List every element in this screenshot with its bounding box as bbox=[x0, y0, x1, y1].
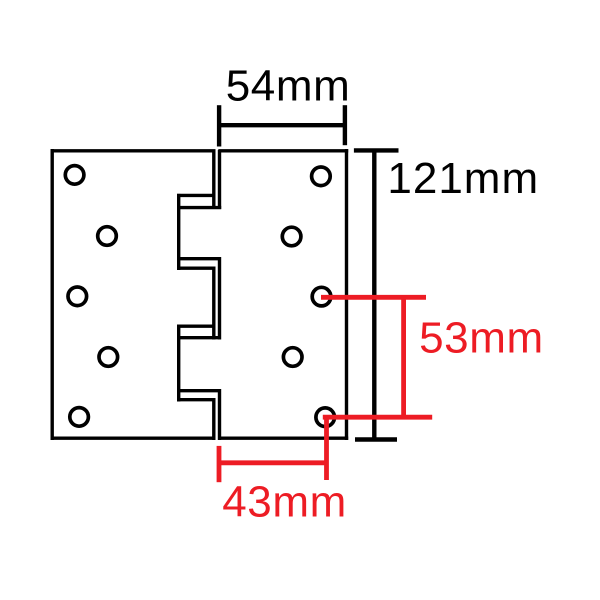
knuckle section 5 inner vertical bbox=[212, 398, 215, 440]
screw hole R3 bbox=[312, 287, 331, 306]
knuckle junction 3 upper line bbox=[177, 325, 216, 328]
screw hole R4 bbox=[283, 348, 302, 367]
knuckle section 5 outer vertical bbox=[218, 389, 221, 440]
screw hole L2 bbox=[98, 227, 117, 246]
54mm dimension line bbox=[217, 123, 346, 127]
knuckle left edge lower segment bbox=[177, 325, 180, 402]
right leaf bottom edge bbox=[218, 437, 348, 440]
svg-text:43mm: 43mm bbox=[222, 478, 347, 527]
121mm top tick bbox=[354, 148, 399, 152]
svg-text:54mm: 54mm bbox=[226, 61, 351, 110]
screw hole R5 bbox=[316, 408, 335, 427]
53mm top extension line from hole R3 bbox=[321, 295, 426, 300]
right leaf right edge bbox=[345, 149, 348, 440]
screw hole L5 bbox=[70, 408, 89, 427]
43mm left tick bbox=[217, 446, 222, 482]
knuckle junction 2 upper line bbox=[177, 257, 221, 260]
screw hole L3 bbox=[68, 287, 87, 306]
53mm dimension line bbox=[401, 296, 406, 419]
knuckle junction 4 lower line bbox=[180, 398, 216, 401]
screw hole L1 bbox=[65, 166, 84, 185]
knuckle section 3 inner vertical bbox=[212, 267, 215, 340]
121mm bottom tick bbox=[355, 437, 397, 441]
right leaf top edge bbox=[218, 149, 348, 152]
54mm right tick bbox=[343, 105, 347, 145]
svg-text:121mm: 121mm bbox=[387, 154, 539, 203]
54mm left tick bbox=[217, 105, 221, 146]
screw hole R2 bbox=[282, 227, 301, 246]
screw hole R1 bbox=[312, 167, 331, 186]
screw hole L4 bbox=[99, 348, 118, 367]
121mm dimension line bbox=[372, 150, 376, 439]
knuckle junction 2 lower line bbox=[180, 267, 216, 270]
knuckle junction 1 lower line bbox=[177, 206, 221, 209]
knuckle junction 3 lower line bbox=[179, 336, 222, 339]
43mm right extension line from hole R5 bbox=[324, 417, 329, 480]
left leaf left edge bbox=[51, 149, 54, 440]
knuckle junction 4 upper line bbox=[177, 389, 221, 392]
left leaf bottom edge bbox=[51, 437, 216, 440]
knuckle section 1 outer vertical bbox=[218, 150, 221, 209]
svg-text:53mm: 53mm bbox=[419, 314, 544, 363]
knuckle junction 1 upper line bbox=[177, 194, 216, 197]
43mm dimension line bbox=[217, 460, 327, 465]
knuckle section 3 outer vertical bbox=[218, 257, 221, 340]
53mm bottom extension line from hole R5 bbox=[323, 415, 432, 420]
left leaf top edge bbox=[51, 149, 216, 152]
knuckle left edge upper segment bbox=[177, 194, 180, 270]
knuckle section 1 inner vertical bbox=[212, 150, 215, 209]
